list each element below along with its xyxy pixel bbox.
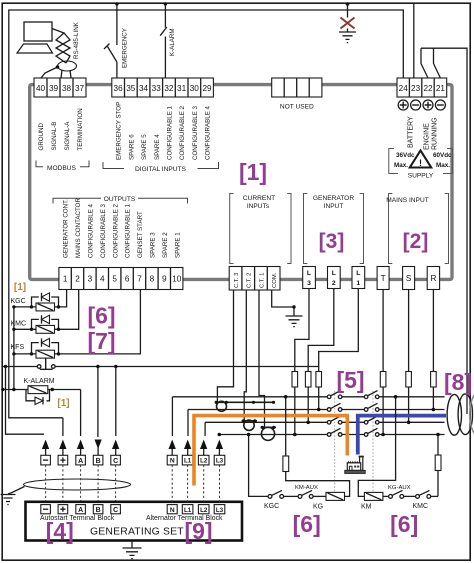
arrow into B downward: [95, 440, 102, 456]
controller unit box: [30, 85, 452, 280]
svg-text:33: 33: [152, 84, 162, 93]
svg-text:SPARE 4: SPARE 4: [154, 134, 161, 160]
node fuel line left: [4, 365, 7, 368]
terminal L2 genset: [198, 505, 209, 514]
svg-text:L: L: [332, 270, 336, 277]
svg-text:32: 32: [164, 84, 174, 93]
arrow into C: [112, 440, 119, 456]
terminal strip NOT USED: [272, 78, 322, 97]
svg-text:CONFIGURABLE 1: CONFIGURABLE 1: [125, 203, 132, 258]
shield ground wire: [8, 487, 25, 495]
terminal minus upper: [41, 455, 51, 465]
arrow into L2: [200, 440, 207, 456]
svg-text:2: 2: [332, 280, 336, 287]
terminal L3: [303, 267, 316, 289]
svg-text:36: 36: [114, 84, 124, 93]
svg-text:6: 6: [125, 275, 130, 284]
svg-text:GENERATOR: GENERATOR: [313, 195, 354, 202]
svg-text:[1]: [1]: [14, 282, 26, 293]
terminal L3 upper: [214, 455, 225, 465]
polarity symbol plus pin24: [398, 100, 408, 110]
svg-text:SPARE 3: SPARE 3: [150, 232, 157, 258]
arrow into A: [77, 440, 84, 456]
ground symbol genset: [123, 541, 142, 559]
svg-text:9: 9: [162, 275, 167, 284]
bracket MODBUS: [36, 161, 89, 172]
CT wire 3: [217, 290, 233, 402]
svg-text:21: 21: [436, 84, 446, 93]
svg-text:GENSET START: GENSET START: [137, 211, 144, 258]
terminal L1 genset: [182, 505, 193, 514]
terminal N genset: [167, 505, 177, 514]
node F3 row L1: [317, 408, 321, 412]
supply warning box: [389, 149, 453, 180]
svg-text:KGC: KGC: [11, 298, 26, 305]
svg-text:GROUND: GROUND: [38, 122, 45, 150]
laptop screen: [24, 22, 52, 41]
arrow into L3: [216, 440, 223, 456]
KG coil feed from neutral through fuse: [286, 397, 350, 497]
svg-text:L3: L3: [216, 458, 224, 465]
svg-text:1: 1: [63, 275, 68, 284]
svg-text:K-ALARM: K-ALARM: [169, 28, 176, 56]
contact KGC: [268, 490, 298, 498]
laptop keyboard: [17, 44, 53, 53]
mains source ellipse 3 clipped: [470, 394, 474, 435]
terminal strip MODBUS 40-37: [34, 78, 86, 97]
svg-text:CONFIGURABLE 3: CONFIGURABLE 3: [192, 105, 199, 160]
svg-text:EMERGENCY: EMERGENCY: [121, 28, 128, 68]
contactor KG poles: [327, 391, 342, 437]
orange load wire: [194, 416, 347, 486]
fuse KG coil: [283, 456, 289, 472]
no-ground X mark: [341, 18, 355, 29]
svg-text:[1]: [1]: [57, 398, 69, 409]
wire battery plus top bus: [9, 10, 404, 418]
svg-text:L3: L3: [216, 507, 224, 514]
mains source ellipse 2: [458, 394, 472, 435]
svg-text:MODBUS: MODBUS: [47, 165, 77, 172]
bracket CURRENT INPUTS: [230, 194, 291, 264]
wire A output: [80, 390, 82, 437]
svg-text:5: 5: [112, 275, 117, 284]
relay KMC: [11, 315, 61, 333]
svg-text:SUPPLY: SUPPLY: [408, 173, 434, 180]
svg-text:KM: KM: [361, 504, 372, 511]
node earth top junction: [346, 2, 350, 6]
generating set box: [26, 502, 243, 541]
terminal strip current inputs CT: [229, 267, 280, 291]
fuse F3 generator: [316, 371, 322, 410]
arrow into L1: [184, 440, 191, 456]
svg-text:INPUTs: INPUTs: [247, 203, 270, 210]
svg-text:[6]: [6]: [390, 511, 418, 537]
svg-text:[2]: [2]: [403, 230, 429, 253]
terminal plus upper: [58, 455, 68, 465]
svg-text:A: A: [78, 458, 83, 465]
terminal N upper: [167, 455, 177, 465]
KFS actuated fuel switch: [37, 358, 55, 369]
svg-text:INPUT: INPUT: [324, 203, 344, 210]
coil KG: [326, 492, 345, 500]
svg-text:B: B: [96, 458, 101, 465]
svg-text:SIGNAL-B: SIGNAL-B: [51, 122, 58, 151]
KGC feed from row L3: [249, 435, 269, 497]
cable bundle ellipse: [24, 479, 131, 490]
svg-text:38: 38: [62, 84, 72, 93]
svg-text:N: N: [170, 507, 175, 514]
svg-text:CONFIGURABLE 1: CONFIGURABLE 1: [167, 105, 174, 160]
svg-text:L: L: [307, 270, 311, 277]
contact KG-AUX: [389, 490, 416, 498]
fuse FT mains: [380, 372, 386, 388]
relay K-ALARM: [1, 378, 81, 404]
svg-text:OUTPUTS: OUTPUTS: [104, 196, 136, 203]
terminal C upper: [111, 455, 121, 465]
svg-text:CONFIGURABLE 3: CONFIGURABLE 3: [100, 203, 107, 258]
dashed leads autostart: [46, 465, 116, 505]
ground symbol top right: [339, 32, 356, 43]
svg-text:31: 31: [177, 84, 187, 93]
terminal strip supply 24-21: [397, 78, 447, 97]
bus row N: [172, 396, 444, 398]
svg-text:L: L: [356, 270, 360, 277]
svg-text:Alternator Terminal Block: Alternator Terminal Block: [146, 515, 223, 522]
node L3 corner junction: [218, 433, 222, 437]
generator L1 wire to fuse: [319, 289, 359, 372]
svg-text:34: 34: [139, 84, 149, 93]
relay KGC: [11, 293, 61, 311]
svg-text:CONFIGURABLE 2: CONFIGURABLE 2: [179, 105, 186, 160]
bracket DIGITAL INPUTS: [103, 162, 219, 173]
svg-text:L2: L2: [200, 458, 208, 465]
terminal plus genset: [58, 505, 68, 514]
terminal L2 upper: [198, 455, 209, 465]
contactor KM gang dashed: [372, 391, 374, 492]
svg-text:37: 37: [75, 84, 85, 93]
svg-text:[6]: [6]: [87, 303, 115, 329]
svg-text:[1]: [1]: [239, 159, 267, 185]
contactor KG gang dashed: [334, 391, 336, 492]
svg-text:CONFIGURABLE 4: CONFIGURABLE 4: [205, 105, 212, 160]
svg-text:24: 24: [399, 84, 409, 93]
svg-text:[3]: [3]: [319, 230, 345, 253]
wire terminal7 to KFS: [59, 290, 141, 354]
node KG neutral tap: [284, 395, 288, 399]
alternator L3 wire: [218, 435, 220, 437]
svg-text:CURRENT: CURRENT: [243, 195, 275, 202]
modbus connector ellipse: [58, 61, 77, 71]
svg-text:S: S: [406, 274, 412, 283]
generator L3 wire to fuse: [295, 289, 309, 372]
dashed leads alternator: [172, 465, 219, 505]
svg-text:L1: L1: [184, 458, 192, 465]
svg-text:R: R: [430, 274, 436, 283]
svg-text:[8]: [8]: [444, 369, 472, 395]
svg-text:SPARE 5: SPARE 5: [141, 134, 148, 160]
wire engine running to right side: [421, 48, 467, 414]
svg-text:RS-485-LINK: RS-485-LINK: [73, 21, 80, 59]
svg-text:MAINS CONTACTOR: MAINS CONTACTOR: [75, 198, 82, 258]
wire terminal2 to KMC: [59, 290, 79, 330]
svg-text:29: 29: [202, 84, 212, 93]
node R row L1: [432, 408, 436, 412]
wire fuel line long: [3, 366, 319, 368]
terminal S: [403, 267, 415, 290]
svg-text:B: B: [96, 507, 101, 514]
wire earth drop: [347, 4, 349, 32]
wire minus drop: [6, 367, 45, 435]
svg-text:3: 3: [88, 275, 93, 284]
terminal C genset: [111, 505, 121, 514]
CT wire 2: [244, 290, 246, 421]
KM coil supply fuse tap: [437, 435, 439, 497]
current transformer CT1: [215, 401, 276, 412]
emergency stop wire upper: [116, 4, 118, 45]
svg-text:L2: L2: [200, 507, 208, 514]
svg-text:C: C: [113, 458, 118, 465]
svg-text:Max.: Max.: [394, 162, 408, 169]
svg-text:4: 4: [100, 275, 105, 284]
contactor KM poles: [364, 391, 379, 437]
wire terminal1 to KGC: [59, 290, 67, 307]
svg-text:N: N: [170, 458, 175, 465]
svg-text:KG-AUX: KG-AUX: [388, 485, 411, 491]
k-alarm input switch: [160, 4, 167, 78]
svg-text:KMC: KMC: [413, 503, 429, 510]
terminal L3 genset: [214, 505, 225, 514]
svg-text:GENERATOR CONT.: GENERATOR CONT.: [63, 199, 70, 258]
svg-text:KFS: KFS: [11, 344, 25, 351]
terminal strip digital inputs 36-29: [112, 78, 214, 97]
svg-text:[5]: [5]: [336, 367, 364, 393]
svg-text:L1: L1: [184, 507, 192, 514]
rs-485 zigzag cable: [52, 29, 70, 64]
load building icon: [345, 456, 365, 473]
warning triangle: [410, 151, 431, 168]
bracket OUTPUTS: [53, 196, 188, 204]
svg-text:BATTERY: BATTERY: [407, 116, 414, 148]
svg-text:Max.: Max.: [436, 162, 450, 169]
svg-text:KG: KG: [313, 504, 323, 511]
polarity symbol minus pin23: [411, 100, 421, 110]
terminal minus genset: [41, 505, 51, 514]
alternator N wire: [171, 397, 173, 436]
bus row L3: [219, 434, 444, 436]
wire C output: [115, 367, 117, 437]
svg-text:[7]: [7]: [87, 328, 115, 354]
svg-text:K-ALARM: K-ALARM: [24, 378, 55, 385]
svg-text:NOT USED: NOT USED: [280, 104, 314, 111]
svg-text:MAINS INPUT: MAINS INPUT: [386, 197, 429, 204]
CT wire 1: [259, 290, 265, 427]
node F2 row L2: [306, 421, 310, 425]
coil KM: [364, 492, 388, 500]
node k-alarm top junction: [164, 2, 167, 5]
svg-text:36Vdc: 36Vdc: [396, 152, 415, 159]
wire B output: [97, 367, 99, 438]
node modbus connector: [56, 65, 60, 69]
CT COM wire to ground: [272, 290, 294, 316]
arrow into N: [169, 440, 176, 456]
svg-text:1: 1: [356, 280, 360, 287]
svg-text:8: 8: [150, 275, 155, 284]
terminal R: [427, 267, 439, 290]
mains T wire: [382, 290, 384, 435]
polarity symbol plus pin22: [423, 100, 433, 110]
svg-text:30: 30: [190, 84, 200, 93]
current transformer CT2: [242, 419, 258, 430]
ground symbol CT common: [286, 316, 303, 327]
svg-text:SPARE 6: SPARE 6: [128, 134, 135, 160]
contact KMC: [416, 490, 438, 498]
bus row L2: [205, 421, 444, 423]
relay KFS: [11, 338, 61, 358]
terminal L1: [352, 267, 365, 289]
terminal L2: [328, 267, 341, 289]
node T row L3: [381, 433, 385, 437]
svg-text:22: 22: [423, 84, 433, 93]
arrow into minus: [42, 440, 49, 456]
svg-text:SPARE 2: SPARE 2: [162, 232, 169, 258]
polarity symbol minus pin21: [435, 100, 445, 110]
bracket GENERATOR INPUT: [304, 194, 364, 264]
svg-text:[6]: [6]: [293, 511, 321, 537]
fuse FS mains: [406, 372, 412, 388]
svg-text:10: 10: [172, 275, 182, 284]
blue load wire: [358, 416, 446, 455]
fuse F1 generator: [292, 371, 298, 435]
wire battery minus to frame: [413, 4, 415, 78]
svg-text:CONFIGURABLE 2: CONFIGURABLE 2: [112, 203, 119, 258]
svg-text:C.T. 1: C.T. 1: [259, 273, 265, 288]
svg-text:40: 40: [36, 84, 46, 93]
svg-text:EMERGENCY STOP: EMERGENCY STOP: [116, 102, 123, 160]
bracket MAINS INPUT: [386, 194, 448, 264]
fuse F2 generator: [305, 371, 311, 422]
svg-text:35: 35: [126, 84, 136, 93]
svg-text:DIGITAL INPUTS: DIGITAL INPUTS: [135, 166, 187, 173]
svg-text:KMC: KMC: [11, 320, 27, 327]
alternator L2 wire: [204, 422, 206, 436]
alternator L1 wire: [187, 410, 189, 437]
modbus connector wires: [41, 67, 71, 78]
wire plus drop arrowline: [62, 418, 64, 436]
generator L2 wire to fuse: [308, 289, 334, 372]
svg-text:C.T. 2: C.T. 2: [247, 273, 253, 288]
arrow into plus: [59, 440, 66, 456]
ground symbol shield: [1, 495, 16, 505]
svg-text:KGC: KGC: [264, 503, 279, 510]
svg-text:2: 2: [75, 275, 80, 284]
mains source ellipse 1: [447, 394, 461, 435]
fuse FR mains: [431, 372, 437, 388]
svg-text:COM.: COM.: [272, 272, 278, 288]
terminal B upper: [93, 455, 103, 465]
svg-text:CONFIGURABLE 4: CONFIGURABLE 4: [88, 203, 95, 258]
terminal A upper: [76, 455, 86, 465]
svg-text:RUNNING: RUNNING: [432, 117, 439, 150]
terminal A genset: [76, 505, 86, 514]
relay bus left: [13, 307, 15, 390]
KM coil neutral link: [358, 397, 395, 497]
svg-text:!: !: [419, 158, 422, 168]
svg-text:KM-AUX: KM-AUX: [295, 485, 318, 491]
mains R wire: [432, 290, 434, 410]
terminal T: [377, 267, 389, 290]
current transformer CT3: [261, 426, 277, 441]
svg-text:23: 23: [411, 84, 421, 93]
bus row L1: [188, 409, 445, 411]
svg-text:60Vdc: 60Vdc: [433, 152, 452, 159]
svg-text:ENGINE: ENGINE: [424, 123, 431, 150]
fuse KM coil: [435, 455, 441, 471]
contact KM-AUX: [298, 490, 326, 498]
mains S wire: [408, 290, 410, 423]
svg-text:3: 3: [307, 280, 311, 287]
terminal L1 upper: [182, 455, 193, 465]
svg-text:C: C: [113, 507, 118, 514]
svg-text:T: T: [381, 274, 386, 283]
svg-text:SIGNAL-A: SIGNAL-A: [64, 121, 71, 151]
svg-text:[4]: [4]: [46, 518, 74, 544]
svg-text:TERMINATION: TERMINATION: [77, 108, 84, 150]
svg-text:A: A: [78, 507, 83, 514]
svg-text:7: 7: [137, 275, 142, 284]
node S row L2: [407, 421, 411, 425]
terminal B genset: [93, 505, 103, 514]
emergency stop switch: [104, 44, 117, 79]
wire engine running trapezoid: [421, 48, 440, 78]
terminal strip outputs 1-10: [59, 268, 183, 290]
node F1 row L3: [293, 433, 297, 437]
svg-text:SPARE 1: SPARE 1: [174, 232, 181, 258]
svg-text:GENERATING SET: GENERATING SET: [90, 527, 184, 538]
svg-text:39: 39: [49, 84, 59, 93]
svg-text:C.T. 3: C.T. 3: [234, 272, 240, 288]
node battery plus junction: [115, 2, 118, 5]
